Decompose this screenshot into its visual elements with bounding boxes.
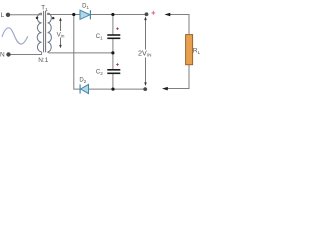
svg-text:C2: C2 <box>96 70 103 76</box>
svg-text:N: N <box>0 52 5 59</box>
svg-text:D1: D1 <box>82 4 89 10</box>
svg-text:L: L <box>1 12 5 19</box>
svg-text:N:1: N:1 <box>38 57 49 64</box>
svg-text:D2: D2 <box>79 77 86 83</box>
svg-text:C1: C1 <box>96 34 103 40</box>
